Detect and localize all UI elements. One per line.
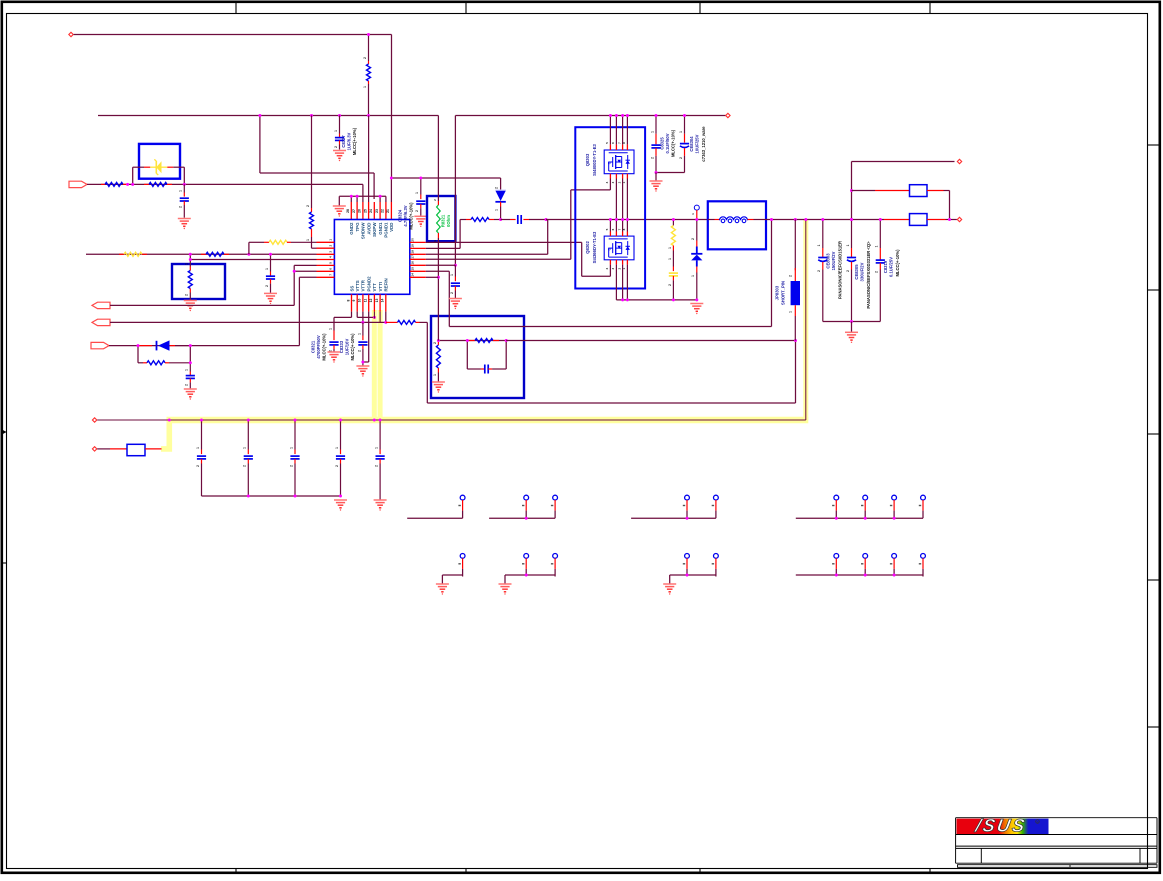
zener diode (yellow) bypass [133,159,185,184]
test point group 3 (pair) [631,495,718,520]
wire output cap gnd rail [823,321,881,323]
junction dot right branch [850,189,853,221]
svg-text:CE8303: CE8303 [825,253,830,269]
svg-text:PANASONIC/EEFSX0D331ER <Q>: PANASONIC/EEFSX0D331ER <Q> [866,241,871,309]
test point group 4 (quad) [796,495,926,520]
junction dot VTT drop [804,218,807,221]
wire port2 net [110,271,294,305]
wire row7 to R8321 [426,276,439,278]
diode (port4, blue) [138,340,190,350]
wire IC row3 long [86,253,317,255]
resistor (x311 pullup) [306,116,317,249]
label C8321 [311,333,327,361]
wire REFIN down [385,312,387,323]
junction dot snubber bottom [672,298,675,301]
resistor box (left pull-down) [172,264,225,299]
ground under C8327 [333,151,346,162]
svg-text:C8333: C8333 [339,340,344,353]
svg-text:19: 19 [411,244,415,248]
wire Q8302 source rail [616,299,696,301]
wire right sense branch [852,162,955,220]
wire row3 to SW [426,220,548,255]
svg-text:2: 2 [243,465,247,467]
svg-text:2: 2 [846,270,850,272]
svg-text:2: 2 [875,271,879,273]
svg-text:PANASONIC/EEFCS0D151ER: PANASONIC/EEFCS0D151ER [837,241,842,299]
svg-text:CE8304: CE8304 [689,136,694,152]
wire VDD drop x391 [391,35,393,179]
junction dot schottky top [695,218,698,221]
svg-text:2: 2 [306,205,310,207]
test point (SW node) [691,205,700,219]
junction dots input caps [655,114,687,174]
jumper JP8303 [788,220,800,341]
junction dot JP tap [794,218,797,221]
svg-text:AVDD: AVDD [366,223,371,235]
label CE8303 [825,241,842,299]
svg-text:28: 28 [346,209,350,213]
svg-text:1: 1 [817,244,821,246]
svg-text:0.1UF/25V: 0.1UF/25V [888,257,893,277]
wire IC top ground bus [339,196,386,205]
svg-text:1: 1 [335,447,339,449]
svg-text:1: 1 [433,374,437,376]
junction dot row3 tap [545,218,548,221]
svg-text:11: 11 [364,299,368,303]
ground at schottky [690,304,703,315]
input port 4 [91,342,109,348]
wire x455 5V branch [454,116,456,266]
wire output node [766,219,884,221]
capacitor C8325 [650,116,660,173]
label C8324 [398,202,414,230]
ground under C8324 [414,216,427,227]
wires Q8303 source to SW [605,174,627,220]
wire bus resistor to VTT [145,448,162,450]
wire row7 [299,276,316,278]
svg-text:C8327: C8327 [341,135,346,148]
transistor Q8302 [604,236,634,260]
junction dot C8324 [419,177,422,180]
svg-text:VTT: VTT [372,283,377,292]
capacitor (port4 filter) [185,363,195,389]
junction dot FB-JP [794,339,797,342]
resistor (port1 series 1) [101,182,128,186]
svg-text:1: 1 [495,209,499,211]
svg-text:REFIN: REFIN [384,278,389,291]
test point group 8 (quad) [796,554,926,577]
svg-text:1UF/6.3V: 1UF/6.3V [347,132,352,150]
label R8321 [441,214,451,227]
wire row5 corner [294,265,316,271]
wire IC row4 from box resistor [190,254,316,259]
svg-text:2: 2 [650,157,654,159]
ground under x270 cap [264,293,277,304]
svg-text:PGND1: PGND1 [384,222,389,238]
capacitor C8324 [415,178,425,216]
ground under C8333 [356,366,369,377]
svg-text:/SUS: /SUS [973,816,1028,836]
IC top pin numbers [346,209,390,213]
svg-text:GND2: GND2 [349,222,354,235]
capacitor CE8305 [846,220,856,322]
label C8333 [339,333,355,361]
label CE8304 [689,126,706,162]
svg-text:1: 1 [375,447,379,449]
wire FB to JP [506,340,795,342]
IC top pin leads [351,116,391,220]
junction dots IC top bus [350,195,382,198]
svg-text:VDD: VDD [389,223,394,232]
junction dot snubber top [672,218,675,221]
svg-text:25: 25 [363,209,367,213]
svg-text:MLCC(+-10%): MLCC(+-10%) [409,202,414,230]
ground under x455 cap [449,299,462,310]
wire 5V rail left segment [98,115,438,117]
svg-text:1: 1 [357,333,361,335]
label CE8305 [854,241,871,309]
capacitor C8321 [328,328,338,352]
junction dots port4 [137,344,192,364]
off-page terminal VIN right [726,113,730,117]
svg-text:C8325: C8325 [659,137,664,150]
resistor (vertical in box) [185,260,193,301]
svg-text:2: 2 [334,146,338,148]
svg-text:9: 9 [352,299,356,301]
test point group 6 (pair) [505,554,557,584]
diode (schottky, blue) [691,220,703,300]
capacitor C8319 [875,220,885,322]
svg-text:C8321: C8321 [311,340,316,353]
junction dot cap gnd rail [850,320,853,323]
junction dot R8321-row7 [437,276,440,279]
ground under output caps [845,322,858,343]
svg-text:24: 24 [369,209,373,213]
junction dot schottky bottom [695,298,698,301]
ground at group 5 [436,584,449,595]
svg-text:27: 27 [352,209,356,213]
off-page terminal (VTT left) [92,418,96,422]
svg-text:1: 1 [846,244,850,246]
junction dot right out [948,218,951,221]
resistor (yellow, row3) [119,252,147,256]
svg-text:2: 2 [375,465,379,467]
label Q8303 [585,144,597,176]
wire port4 net [109,277,299,345]
resistor (port1 series 2) [144,182,172,186]
svg-text:R: R [1037,820,1039,824]
capacitor C8327 [334,116,344,150]
junction dots port1 [126,183,186,186]
junction dots cap gnd rail [247,495,342,498]
test point group 5 (single) [442,554,465,584]
svg-text:1: 1 [668,258,672,260]
ASUS logo [957,816,1049,836]
capacitor CE8303 [817,220,827,322]
svg-text:1: 1 [650,131,654,133]
inductor box [708,201,766,249]
capacitor (boot RC series) [501,215,546,224]
svg-text:2: 2 [788,275,792,277]
svg-text:2: 2 [185,384,189,386]
junction dots FB [437,339,508,342]
op-amp U controller IC box [334,220,409,295]
wire R8321 pin2 to 5V [437,116,439,202]
ground under C8321 [328,352,341,363]
capacitor C8333 [357,322,367,365]
junction dot VDD [390,177,393,180]
svg-text:2: 2 [817,270,821,272]
wire IC left row1 yellow R [249,240,317,254]
IC right pin leads [410,238,426,277]
svg-text:1: 1 [668,247,672,249]
svg-text:17: 17 [411,255,415,259]
wire FB node [438,340,506,342]
resistor (box, upper right) [852,185,950,220]
junction dot VTT pin12 [373,316,376,319]
junction dot REFIN [384,321,387,324]
transistor Q8303 [604,150,634,174]
label JP8303 [774,281,785,305]
wire R8321 pin1 down [437,238,439,341]
resistor (FB series) [469,339,499,343]
svg-text:2: 2 [679,157,683,159]
svg-text:13: 13 [375,299,379,303]
wire SS to C8321 [334,312,352,331]
junction dot row6 [293,270,296,273]
resistor (box, bottom left) [127,444,145,455]
svg-text:150UF/2V: 150UF/2V [831,251,836,270]
svg-text:26: 26 [358,209,362,213]
wire port1 net [87,183,363,185]
junction dot boot diode [499,218,502,221]
ground in FB box [432,382,445,393]
svg-text:10: 10 [358,299,362,303]
svg-text:10UF/25V: 10UF/25V [695,134,700,153]
input port 3 [92,319,110,325]
junction dot C8333 gnd [361,361,364,364]
junction dot VTTR [361,321,364,324]
svg-text:22: 22 [381,209,385,213]
junction dot bus corner [168,419,171,422]
test point group 2 (pair) [489,495,557,520]
svg-text:1: 1 [363,86,367,88]
off-page terminal (feed left) [92,447,96,451]
svg-text:MLCC(+-10%): MLCC(+-10%) [352,127,357,155]
svg-text:1: 1 [334,130,338,132]
ground under box resistor [184,301,197,312]
wire SKIP link x259 [260,116,374,200]
junction dots SW at Q8302 [609,218,629,221]
svg-text:4700PF/50V: 4700PF/50V [316,335,321,358]
off-page terminal (sense top) [957,159,961,163]
feedback network box [431,316,524,398]
svg-text:1: 1 [185,263,189,265]
svg-text:Q8302: Q8302 [585,241,590,254]
svg-text:1: 1 [450,274,454,276]
svg-text:SHDNW: SHDNW [361,222,366,239]
junction dot CE8303 top [821,218,824,221]
junction dots source rail [621,298,629,301]
input port 1 [69,181,87,187]
svg-text:MLCC(+-10%): MLCC(+-10%) [670,129,675,157]
svg-text:2: 2 [415,210,419,212]
svg-text:PGND2: PGND2 [367,276,372,292]
svg-text:JP8303: JP8303 [774,285,779,300]
svg-text:2: 2 [363,57,367,59]
svg-text:4.7UF/6.3V: 4.7UF/6.3V [403,205,408,226]
off-page terminal 12V top-left [69,32,73,36]
wire UGATE link [571,179,611,260]
svg-text:MLCC(+-10%): MLCC(+-10%) [895,249,900,277]
ground under C8325 [650,173,663,192]
svg-text:23: 23 [375,209,379,213]
svg-text:8: 8 [346,299,350,301]
ground at group 6 [499,584,512,595]
svg-text:VTTS: VTTS [355,280,360,291]
wire 5V rail right segment [455,115,728,117]
transistor pair outline box [575,127,645,288]
svg-text:1: 1 [306,239,310,241]
label Q8302 [585,231,597,263]
svg-text:2: 2 [335,465,339,467]
wire row5 to cap [426,264,456,266]
svg-text:16: 16 [411,261,415,265]
resistor (FB divider to gnd) [433,341,441,382]
wire VTTR down [362,312,364,323]
wires Q8302 drain to SW [605,220,627,237]
junction dots row3/4 [189,253,272,261]
resistor (snubber, yellow) [668,220,676,267]
svg-text:330UF/2V: 330UF/2V [860,262,865,281]
input port 2 [92,302,110,308]
svg-text:c7343_1210_ware: c7343_1210_ware [701,126,706,162]
svg-text:MLCC(+-10%): MLCC(+-10%) [350,333,355,361]
svg-text:14: 14 [411,273,415,277]
svg-text:SHORT_PIN: SHORT_PIN [781,281,786,305]
capacitor CE8304 [679,116,689,173]
IC bottom pin names [349,276,388,292]
svg-text:VTTR: VTTR [361,279,366,291]
wire row2 to RC [426,220,460,249]
ground at IC top [333,206,346,217]
svg-text:18: 18 [411,250,415,254]
svg-text:1: 1 [265,268,269,270]
wire SW line [546,219,708,221]
svg-text:SKIPW: SKIPW [372,222,377,237]
svg-text:1: 1 [679,131,683,133]
resistor (boot RC) [460,218,501,222]
svg-text:SI4800DY-T1-E3: SI4800DY-T1-E3 [592,144,597,176]
svg-text:1UF/16V: 1UF/16V [345,339,350,356]
test point group 7 (pair) [670,554,719,584]
zener box [139,144,180,179]
resistor (blue, row3) [201,252,229,256]
svg-text:2: 2 [179,206,183,208]
wire VTTI yellow down [379,312,381,323]
svg-text:1: 1 [875,245,879,247]
svg-text:CE8305: CE8305 [854,264,859,280]
resistor R8321 (green) [433,199,440,242]
resistor R8321 box [427,196,455,241]
svg-text:14: 14 [381,299,385,303]
svg-text:1: 1 [328,328,332,330]
svg-text:R8321: R8321 [441,214,446,227]
wire VTTS jog [357,312,374,318]
wire row1 LGATE [426,242,611,276]
capacitor (x455) [450,265,460,298]
svg-text:2: 2 [357,350,361,352]
off-page terminal (out right) [957,217,961,221]
wire yellow VTT drop [805,220,807,421]
test point group 1 (single) [407,495,465,518]
yellow highlighted VTT net [161,220,808,449]
svg-text:C8324: C8324 [398,209,403,222]
junction dot row5-cap [454,264,457,267]
ground at group 7 [663,584,676,595]
junction dot CE8305 top [850,218,853,221]
IC bottom pin numbers [346,299,384,303]
svg-text:0Ohm: 0Ohm [446,215,451,227]
svg-text:15: 15 [411,267,415,271]
svg-text:1: 1 [289,447,293,449]
capacitor (port1 filter) [179,184,189,217]
svg-text:12: 12 [369,299,373,303]
svg-text:2: 2 [691,238,695,240]
svg-text:TPG: TPG [355,222,360,232]
ground under port4 cap [184,389,197,400]
wire top rail y34 [74,34,392,36]
resistor (box, lower right) [884,214,957,226]
svg-text:20: 20 [411,238,415,242]
svg-text:2: 2 [495,187,499,189]
ground at 5th cap [374,500,387,511]
capacitor bank (5x VTT) [196,420,385,500]
label C8325 [659,129,675,157]
wire VTT bus [97,419,806,421]
svg-text:1: 1 [196,447,200,449]
ground at cap bank rail [334,500,347,511]
svg-text:1: 1 [185,369,189,371]
resistor (port4 bypass) [138,346,190,365]
wire row6 [294,270,316,272]
svg-text:SI4366DY-T1-E3: SI4366DY-T1-E3 [592,231,597,263]
svg-text:GND1: GND1 [378,222,383,235]
junction dots Q8303 drain [609,114,629,117]
svg-text:MLCC(+-10%): MLCC(+-10%) [322,333,327,361]
svg-text:2: 2 [668,284,672,286]
resistor (REFIN) [386,320,428,324]
wire PGND2 jog [363,312,369,362]
IC top pin names [349,222,394,239]
wires Q8302 source to gnd [605,260,627,300]
wire Vsense [426,220,772,327]
svg-text:0.1UF/50V: 0.1UF/50V [665,133,670,153]
junction dot C8319 top [879,218,882,221]
wire row4 long [426,258,571,260]
ground under port1 cap [178,219,191,230]
wire REFIN loop bottom [427,322,795,403]
svg-text:2: 2 [265,285,269,287]
wire to bus resistor [97,448,127,450]
IC bottom pin leads [352,294,386,311]
svg-text:VTTI: VTTI [378,282,383,292]
svg-text:1: 1 [415,192,419,194]
wire VTT yellow down [373,312,375,319]
junction dot sense tap [770,218,773,221]
svg-text:1: 1 [179,190,183,192]
svg-text:2: 2 [289,465,293,467]
